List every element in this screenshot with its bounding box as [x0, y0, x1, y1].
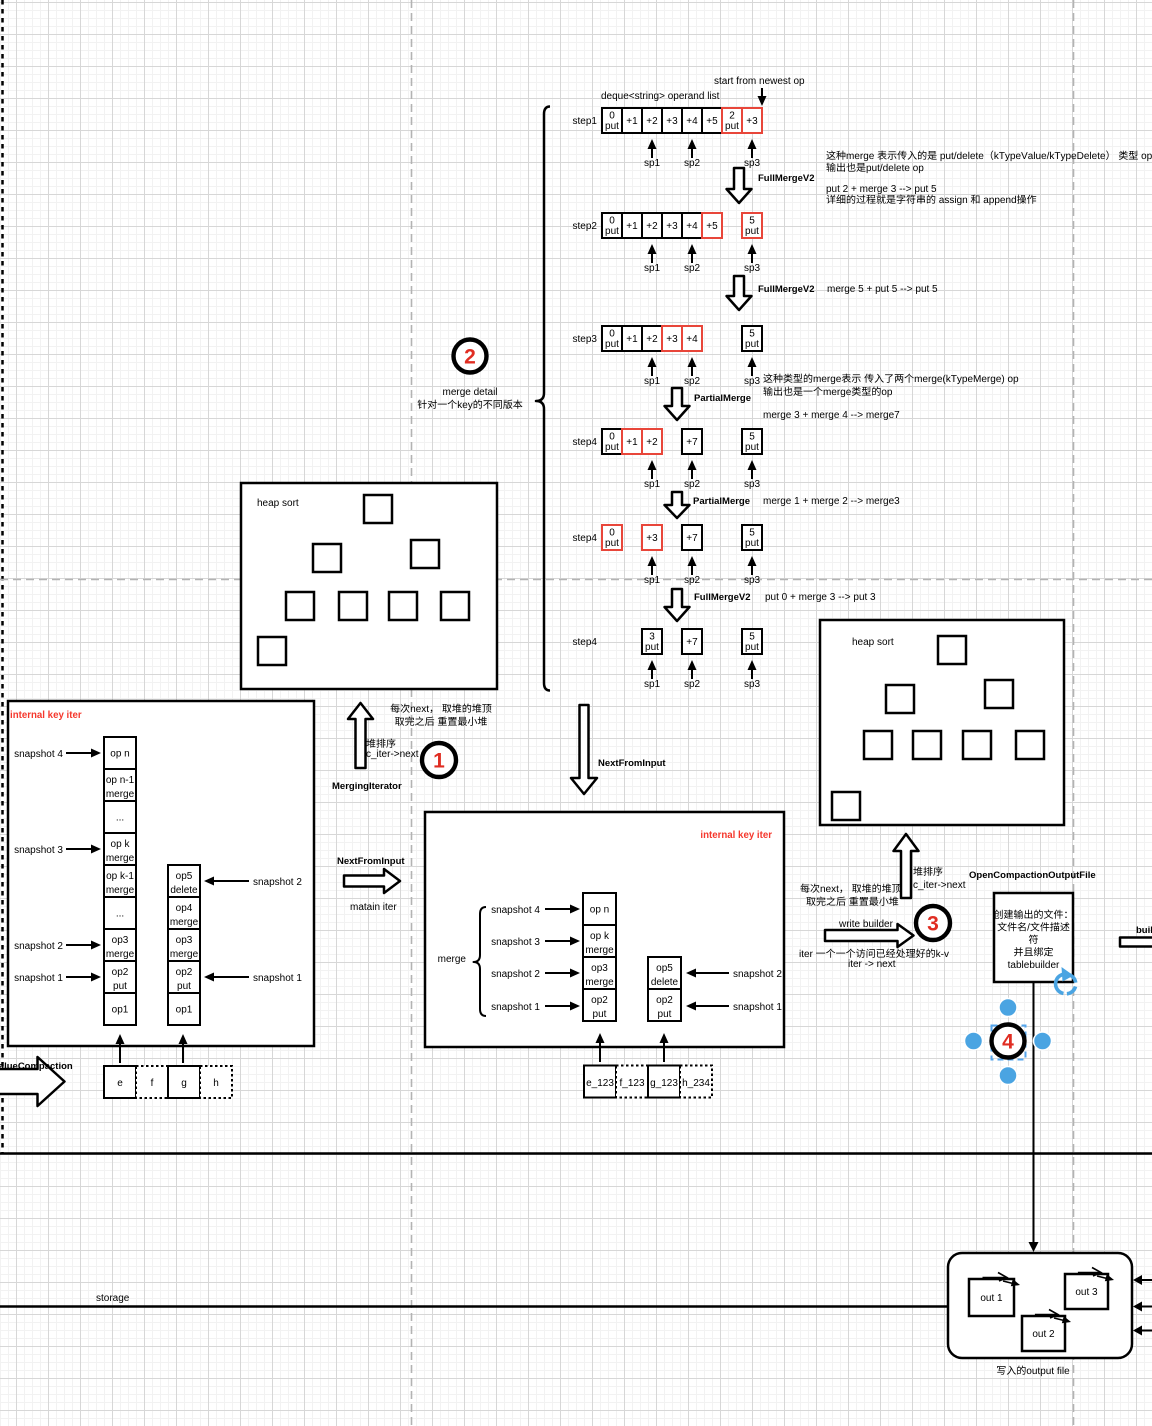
svg-text:delete: delete — [170, 885, 198, 896]
svg-text:3: 3 — [927, 913, 939, 936]
svg-text:5: 5 — [749, 216, 755, 227]
svg-text:sp1: sp1 — [644, 263, 661, 274]
svg-text:out 1: out 1 — [980, 1293, 1003, 1304]
svg-text:snapshot 1: snapshot 1 — [253, 973, 302, 984]
svg-text:op k: op k — [111, 839, 131, 850]
svg-text:OpenCompactionOutputFile: OpenCompactionOutputFile — [969, 870, 1096, 881]
svg-text:op2: op2 — [591, 995, 608, 1006]
svg-text:put: put — [658, 1009, 672, 1020]
svg-text:sp2: sp2 — [684, 376, 701, 387]
svg-text:...: ... — [116, 813, 124, 824]
svg-text:0: 0 — [609, 111, 615, 122]
svg-text:op3: op3 — [176, 935, 193, 946]
svg-text:0: 0 — [609, 329, 615, 340]
svg-text:put: put — [745, 339, 759, 350]
svg-text:sp3: sp3 — [744, 679, 761, 690]
svg-text:delete: delete — [651, 977, 679, 988]
svg-text:5: 5 — [749, 329, 755, 340]
svg-text:heap sort: heap sort — [852, 637, 894, 648]
svg-text:5: 5 — [749, 432, 755, 443]
svg-text:out 3: out 3 — [1075, 1287, 1098, 1298]
svg-text:snapshot 2: snapshot 2 — [253, 877, 302, 888]
svg-text:ValueCompaction: ValueCompaction — [0, 1061, 73, 1072]
svg-text:g_123: g_123 — [650, 1078, 678, 1089]
svg-text:merge: merge — [106, 885, 135, 896]
svg-text:put: put — [113, 981, 127, 992]
svg-text:sp1: sp1 — [644, 679, 661, 690]
svg-text:step4: step4 — [573, 637, 598, 648]
svg-text:e_123: e_123 — [586, 1078, 614, 1089]
svg-text:+3: +3 — [646, 533, 658, 544]
svg-text:...: ... — [116, 909, 124, 920]
svg-text:op1: op1 — [176, 1005, 193, 1016]
svg-text:put: put — [605, 226, 619, 237]
svg-text:builder: builder — [1136, 925, 1152, 936]
svg-text:+3: +3 — [666, 116, 678, 127]
svg-text:merge: merge — [585, 945, 614, 956]
svg-text:+2: +2 — [646, 221, 658, 232]
svg-text:+2: +2 — [646, 116, 658, 127]
svg-text:e: e — [117, 1078, 123, 1089]
svg-text:put 2 + merge 3 --> put 5: put 2 + merge 3 --> put 5 — [826, 184, 937, 195]
svg-text:+7: +7 — [686, 437, 698, 448]
svg-text:5: 5 — [749, 528, 755, 539]
svg-text:put: put — [605, 538, 619, 549]
svg-text:op n: op n — [110, 749, 129, 760]
svg-text:op5: op5 — [656, 963, 673, 974]
svg-text:put: put — [177, 981, 191, 992]
svg-text:merge: merge — [106, 949, 135, 960]
svg-text:+1: +1 — [626, 116, 638, 127]
svg-text:+7: +7 — [686, 533, 698, 544]
svg-text:FullMergeV2: FullMergeV2 — [758, 173, 815, 184]
svg-text:4: 4 — [1002, 1031, 1014, 1054]
svg-text:sp2: sp2 — [684, 158, 701, 169]
svg-text:+3: +3 — [666, 334, 678, 345]
svg-text:+2: +2 — [646, 334, 658, 345]
svg-text:op5: op5 — [176, 871, 193, 882]
svg-text:op k-1: op k-1 — [106, 871, 134, 882]
svg-text:FullMergeV2: FullMergeV2 — [694, 592, 751, 603]
svg-text:snapshot 1: snapshot 1 — [733, 1002, 782, 1013]
svg-text:1: 1 — [433, 750, 445, 773]
svg-text:merge 5 + put 5 --> put 5: merge 5 + put 5 --> put 5 — [827, 284, 938, 295]
svg-text:merge: merge — [438, 954, 467, 965]
svg-text:sp2: sp2 — [684, 575, 701, 586]
svg-text:put: put — [725, 121, 739, 132]
svg-text:2: 2 — [464, 346, 476, 369]
svg-text:step4: step4 — [573, 533, 598, 544]
svg-text:op4: op4 — [176, 903, 193, 914]
svg-text:deque<string> operand list: deque<string> operand list — [601, 91, 720, 102]
svg-text:+4: +4 — [686, 116, 698, 127]
svg-text:merge: merge — [170, 917, 199, 928]
svg-text:+5: +5 — [706, 221, 718, 232]
svg-text:merge 3 + merge 4 --> merge7: merge 3 + merge 4 --> merge7 — [763, 410, 900, 421]
svg-text:op2: op2 — [176, 967, 193, 978]
svg-text:snapshot 4: snapshot 4 — [14, 749, 63, 760]
svg-text:+1: +1 — [626, 334, 638, 345]
svg-text:op n-1: op n-1 — [106, 775, 135, 786]
svg-text:2: 2 — [729, 111, 735, 122]
svg-text:put: put — [605, 442, 619, 453]
svg-text:op3: op3 — [591, 963, 608, 974]
svg-text:storage: storage — [96, 1293, 130, 1304]
svg-text:0: 0 — [609, 216, 615, 227]
svg-text:put: put — [745, 442, 759, 453]
svg-text:snapshot 1: snapshot 1 — [491, 1002, 540, 1013]
svg-text:put: put — [645, 642, 659, 653]
svg-text:f_123: f_123 — [619, 1078, 644, 1089]
svg-text:g: g — [181, 1078, 187, 1089]
svg-text:0: 0 — [609, 528, 615, 539]
svg-text:merge detail: merge detail — [442, 387, 497, 398]
svg-text:sp1: sp1 — [644, 376, 661, 387]
svg-text:+1: +1 — [626, 221, 638, 232]
svg-text:step2: step2 — [573, 221, 598, 232]
svg-text:merge: merge — [170, 949, 199, 960]
svg-text:MergingIterator: MergingIterator — [332, 781, 402, 792]
svg-text:put: put — [745, 642, 759, 653]
svg-text:internal key iter: internal key iter — [10, 710, 82, 721]
svg-text:internal key iter: internal key iter — [700, 830, 772, 841]
svg-text:put: put — [745, 538, 759, 549]
svg-text:iter -> next: iter -> next — [848, 959, 896, 970]
svg-text:PartialMerge: PartialMerge — [693, 496, 750, 507]
svg-text:+1: +1 — [626, 437, 638, 448]
svg-text:put: put — [605, 339, 619, 350]
svg-text:sp3: sp3 — [744, 158, 761, 169]
svg-text:h: h — [213, 1078, 219, 1089]
svg-text:put: put — [593, 1009, 607, 1020]
svg-text:+3: +3 — [746, 116, 758, 127]
svg-text:op2: op2 — [656, 995, 673, 1006]
svg-text:snapshot 2: snapshot 2 — [491, 969, 540, 980]
svg-text:c_iter->next: c_iter->next — [913, 880, 966, 891]
svg-text:sp1: sp1 — [644, 158, 661, 169]
svg-text:PartialMerge: PartialMerge — [694, 393, 751, 404]
svg-text:op1: op1 — [112, 1005, 129, 1016]
svg-text:f: f — [151, 1078, 154, 1089]
svg-text:sp3: sp3 — [744, 376, 761, 387]
svg-text:op k: op k — [590, 931, 610, 942]
svg-text:+3: +3 — [666, 221, 678, 232]
svg-text:snapshot 2: snapshot 2 — [14, 941, 63, 952]
svg-text:snapshot 3: snapshot 3 — [14, 845, 63, 856]
svg-text:put: put — [605, 121, 619, 132]
svg-text:sp3: sp3 — [744, 263, 761, 274]
svg-text:+4: +4 — [686, 334, 698, 345]
svg-text:snapshot 3: snapshot 3 — [491, 937, 540, 948]
svg-text:step1: step1 — [573, 116, 598, 127]
svg-text:matain iter: matain iter — [350, 902, 397, 913]
svg-text:snapshot 2: snapshot 2 — [733, 969, 782, 980]
svg-text:write builder: write builder — [838, 919, 894, 930]
svg-text:c_iter->next: c_iter->next — [366, 749, 419, 760]
svg-text:heap sort: heap sort — [257, 498, 299, 509]
svg-text:step4: step4 — [573, 437, 598, 448]
svg-text:+7: +7 — [686, 637, 698, 648]
svg-text:sp1: sp1 — [644, 479, 661, 490]
svg-text:FullMergeV2: FullMergeV2 — [758, 284, 815, 295]
svg-text:sp2: sp2 — [684, 679, 701, 690]
svg-text:0: 0 — [609, 432, 615, 443]
svg-text:put 0 + merge 3 --> put 3: put 0 + merge 3 --> put 3 — [765, 592, 876, 603]
svg-text:put: put — [745, 226, 759, 237]
svg-text:NextFromInput: NextFromInput — [598, 758, 666, 769]
svg-text:snapshot 4: snapshot 4 — [491, 905, 540, 916]
svg-text:NextFromInput: NextFromInput — [337, 856, 405, 867]
svg-text:h_234: h_234 — [682, 1078, 710, 1089]
svg-text:op2: op2 — [112, 967, 129, 978]
svg-text:out 2: out 2 — [1032, 1329, 1055, 1340]
svg-text:sp3: sp3 — [744, 575, 761, 586]
svg-text:tablebuilder: tablebuilder — [1008, 960, 1060, 971]
svg-text:merge 1 + merge 2 --> merge3: merge 1 + merge 2 --> merge3 — [763, 496, 900, 507]
svg-text:merge: merge — [585, 977, 614, 988]
svg-text:sp2: sp2 — [684, 263, 701, 274]
svg-text:op n: op n — [590, 905, 609, 916]
svg-text:start from newest op: start from newest op — [714, 76, 805, 87]
svg-text:5: 5 — [749, 632, 755, 643]
svg-text:sp1: sp1 — [644, 575, 661, 586]
svg-text:+4: +4 — [686, 221, 698, 232]
svg-text:3: 3 — [649, 632, 655, 643]
svg-text:merge: merge — [106, 789, 135, 800]
svg-text:op3: op3 — [112, 935, 129, 946]
svg-text:snapshot 1: snapshot 1 — [14, 973, 63, 984]
svg-text:sp2: sp2 — [684, 479, 701, 490]
svg-text:sp3: sp3 — [744, 479, 761, 490]
svg-text:step3: step3 — [573, 334, 598, 345]
svg-text:merge: merge — [106, 853, 135, 864]
svg-text:+5: +5 — [706, 116, 718, 127]
svg-text:+2: +2 — [646, 437, 658, 448]
